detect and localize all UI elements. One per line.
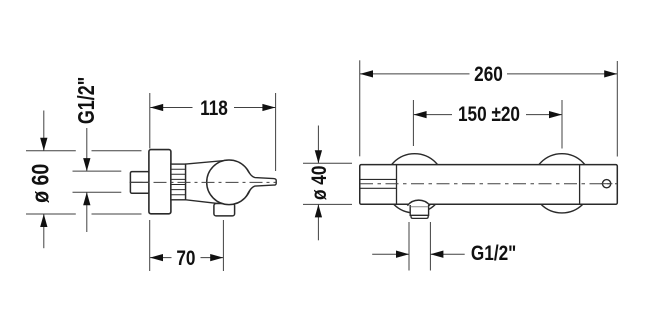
dimension G1/2 bottom extension lines bbox=[409, 222, 430, 271]
separator left bbox=[396, 165, 398, 204]
dimension ø40 arrow bottom bbox=[315, 204, 322, 240]
dimension G1/2 extension lines bbox=[73, 171, 122, 192]
lever horn bbox=[247, 169, 277, 196]
svg-text:G1/2": G1/2" bbox=[74, 77, 100, 124]
svg-text:ø 60: ø 60 bbox=[26, 164, 54, 203]
dimension ø40 extension lines bbox=[303, 163, 352, 204]
dimension ø40 arrow top bbox=[315, 126, 322, 164]
dimension ø60 arrow bottom bbox=[40, 214, 47, 248]
rib lines bbox=[171, 169, 185, 195]
dimension 260 extension lines bbox=[360, 60, 618, 156]
dimension 70 line and arrows bbox=[150, 254, 223, 261]
body rib lines left section bbox=[360, 179, 396, 188]
dimension 150 extension lines bbox=[413, 100, 562, 149]
hex nut (wall connection) bbox=[130, 172, 149, 194]
knob circle bbox=[207, 160, 252, 205]
outlet foot bbox=[411, 215, 428, 218]
dimension G1/2 bottom arrow left bbox=[372, 251, 409, 258]
dimension ø60 arrow top bbox=[40, 111, 47, 151]
mounting circle right bbox=[532, 154, 591, 213]
dimension ø60 extension line bottom bbox=[26, 213, 142, 215]
svg-text:150 ±20: 150 ±20 bbox=[458, 102, 520, 126]
dimension 150 line and arrows bbox=[414, 111, 562, 118]
centerline right drawing bbox=[360, 183, 617, 185]
svg-text:70: 70 bbox=[176, 246, 195, 270]
dimension 260 line and arrows bbox=[360, 70, 617, 77]
mounting circle left bbox=[385, 154, 444, 213]
dimension G1/2 arrow down bbox=[83, 128, 90, 171]
nut facet line bbox=[131, 181, 150, 183]
cap screw circle bbox=[603, 180, 611, 188]
svg-text:260: 260 bbox=[474, 62, 503, 86]
flange bbox=[149, 150, 171, 214]
outlet below knob bbox=[214, 204, 235, 216]
dimension 118 extension lines bbox=[150, 93, 276, 171]
dimension G1/2 bottom arrow right bbox=[430, 251, 464, 258]
separator right cap bbox=[579, 165, 581, 204]
dimension 118 line and arrows bbox=[150, 104, 275, 111]
outlet collar bbox=[410, 205, 428, 215]
outlet collar line bbox=[411, 206, 429, 208]
body bar bbox=[360, 165, 618, 205]
svg-text:118: 118 bbox=[200, 96, 228, 120]
dimension 70 extension lines bbox=[150, 220, 224, 271]
svg-text:ø 40: ø 40 bbox=[307, 165, 331, 200]
centerline through screw bbox=[601, 183, 613, 185]
dimension G1/2 arrow up bbox=[83, 192, 90, 232]
svg-text:G1/2": G1/2" bbox=[471, 241, 516, 265]
outlet dome bbox=[407, 200, 430, 205]
ribbed section bbox=[171, 164, 186, 200]
tapered body bbox=[186, 161, 224, 205]
centerline left drawing bbox=[130, 181, 276, 183]
dimension ø60 extension line top bbox=[26, 150, 142, 152]
